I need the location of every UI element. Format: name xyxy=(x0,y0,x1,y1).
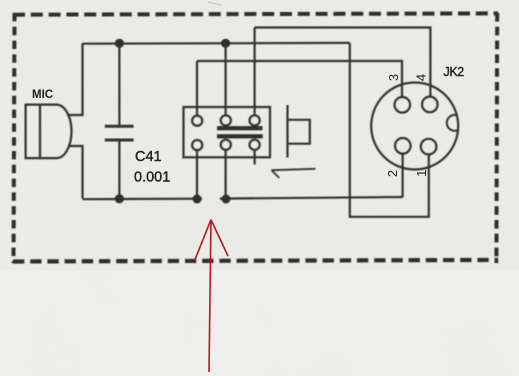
capacitor C41 plates xyxy=(105,126,134,140)
svg-text:JK2: JK2 xyxy=(444,65,465,79)
switch movable contact bar upper xyxy=(217,126,262,130)
switch contact col1 top xyxy=(192,116,202,126)
switch body outline xyxy=(184,107,271,157)
wire net from switch col3 to JK2 pin4 xyxy=(255,28,431,98)
wire switch col2 down to bottom rail xyxy=(225,150,227,199)
switch contact col2 top xyxy=(221,115,231,125)
wire bottom rail left segment xyxy=(83,198,203,201)
connector JK2 body circle xyxy=(371,83,458,170)
capacitor C41 bottom lead xyxy=(118,141,120,198)
capacitor C41 top lead xyxy=(118,43,120,125)
wire JK2 pin2 to bottom rail xyxy=(402,154,404,198)
actuation direction arrow barb xyxy=(272,170,280,178)
connector JK2 pin 3 xyxy=(395,97,411,113)
svg-text:2: 2 xyxy=(385,170,400,177)
actuation direction arrow shaft xyxy=(272,169,316,170)
wire top rail xyxy=(83,42,350,45)
enclosure dashed outline bottom edge xyxy=(13,260,498,262)
connector JK2 pin 2 xyxy=(395,138,411,154)
svg-text:3: 3 xyxy=(386,74,401,81)
wire mic top lead to top rail xyxy=(67,43,83,115)
switch contact col2 bottom xyxy=(221,140,231,150)
enclosure dashed outline top edge xyxy=(13,13,498,14)
connector JK2 pin 4 xyxy=(422,97,438,113)
wire bottom rail right segment xyxy=(220,197,403,199)
svg-text:MIC: MIC xyxy=(32,89,53,101)
switch contact col3 bottom xyxy=(250,140,260,150)
wire switch col1 down to bottom rail xyxy=(196,150,198,199)
junction dot top rail at switch pole xyxy=(221,39,230,48)
junction dot bottom rail left xyxy=(115,194,124,203)
switch contact col3 top xyxy=(250,115,260,125)
svg-text:1: 1 xyxy=(414,170,429,177)
wire switch col3 up to net xyxy=(254,28,256,117)
svg-text:4: 4 xyxy=(413,74,428,81)
red annotation arrow xyxy=(195,220,229,372)
junction dot bottom rail switch col1 xyxy=(193,195,202,204)
junction dot bottom rail switch col2 xyxy=(222,195,231,204)
wire JK2 pin1 to top rail xyxy=(350,43,429,217)
wire switch col1 up to net xyxy=(196,61,198,116)
wire net from switch col1 to JK2 pin3 xyxy=(197,61,402,98)
paper scratch speck xyxy=(208,2,221,5)
connector JK2 pin 1 xyxy=(421,139,437,155)
switch movable contact bar lower xyxy=(217,134,263,138)
enclosure dashed outline left edge xyxy=(14,13,15,263)
wire mic bottom lead to bottom rail xyxy=(68,146,83,199)
svg-text:C41: C41 xyxy=(135,149,162,165)
wire switch col2 up to top rail xyxy=(225,43,227,116)
junction dot top rail at capacitor xyxy=(115,39,124,48)
svg-text:0.001: 0.001 xyxy=(134,169,170,185)
switch actuator plunger line xyxy=(286,105,288,158)
microphone MIC body xyxy=(26,105,72,159)
switch contact col1 bottom xyxy=(192,140,202,150)
switch actuator button bracket xyxy=(288,120,310,144)
connector JK2 keying notch xyxy=(447,115,458,131)
enclosure dashed outline right edge xyxy=(494,13,499,263)
wire switch col3 bottom stub xyxy=(254,150,256,165)
